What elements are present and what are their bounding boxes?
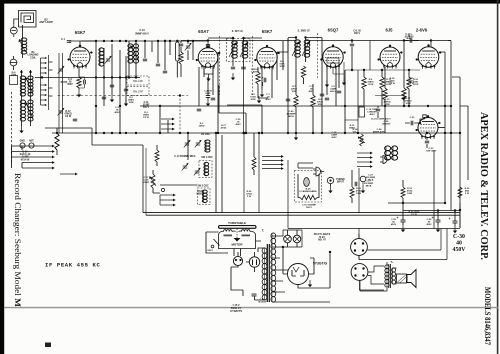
rf stage vertical wires xyxy=(96,41,126,133)
extra tick caps xyxy=(286,94,324,101)
label SW.1 RF lower xyxy=(133,91,143,94)
label C-5 C-6 xyxy=(251,69,255,74)
right page edge line xyxy=(497,0,499,354)
antenna jack circle xyxy=(10,24,17,37)
electrolytic C-27 xyxy=(360,175,376,194)
svg-text:6SK7: 6SK7 xyxy=(262,29,273,34)
label 1st IF xyxy=(232,29,244,33)
frame right step xyxy=(459,203,461,228)
mid hline y70 xyxy=(345,69,420,71)
svg-text:.05 400V: .05 400V xyxy=(258,301,267,304)
osc coil in box 2 xyxy=(202,190,207,203)
label C-25 xyxy=(410,117,416,119)
x358 vertical xyxy=(358,70,364,133)
record changer wire left xyxy=(12,146,23,169)
small jack circles lower xyxy=(161,188,164,191)
label C-17 C-18 xyxy=(143,177,150,184)
svg-text:+: + xyxy=(449,217,451,221)
left margin text Record Changer xyxy=(13,173,23,307)
rect ground xyxy=(308,280,312,287)
svg-text:MODELS 8146,8347: MODELS 8146,8347 xyxy=(483,287,492,345)
pilot wires top xyxy=(283,230,302,247)
speaker socket upper xyxy=(351,234,368,259)
label B-28 candelabra xyxy=(299,189,317,194)
svg-text:SW.1 RF: SW.1 RF xyxy=(133,80,143,83)
tube V7 6V6 lower xyxy=(416,115,441,139)
wires into motor plug xyxy=(298,163,313,168)
resistor below frame xyxy=(55,133,59,150)
svg-text:1/2 W: 1/2 W xyxy=(368,84,375,86)
band switch stems xyxy=(41,55,49,110)
svg-text:MICA: MICA xyxy=(288,115,294,118)
hanging resistor right xyxy=(155,145,159,166)
left mid resistor xyxy=(55,128,59,155)
label T transformer xyxy=(262,229,264,233)
hanging resistor x254 xyxy=(252,133,256,175)
V1 grid cap C-1 xyxy=(61,39,71,42)
svg-text:SW 2 OSC: SW 2 OSC xyxy=(197,186,209,188)
power transformer core xyxy=(267,244,269,302)
V3 cathode resistor xyxy=(256,67,260,90)
1st IF box xyxy=(227,39,251,62)
speaker socket wires xyxy=(359,229,447,260)
1st IF trimmer arrows xyxy=(229,42,248,57)
resistor R-23 xyxy=(350,170,362,203)
junction dots assorted xyxy=(41,36,428,253)
v2 column caps xyxy=(197,98,215,111)
svg-text:1/2 W: 1/2 W xyxy=(408,83,415,85)
label C-16 100MMF xyxy=(302,205,317,210)
label R-20 values xyxy=(20,152,31,162)
loading coil arrow xyxy=(19,39,26,52)
ant coil B3 secondary xyxy=(28,76,33,96)
speaker cone xyxy=(407,270,416,288)
v4 col caps xyxy=(325,91,341,100)
motor plug circle xyxy=(233,256,242,265)
B+ right segment xyxy=(306,40,404,42)
mid area wires xyxy=(160,90,268,133)
ant coil B4 secondary xyxy=(28,100,33,121)
V1 grid cap wire xyxy=(69,41,110,47)
x322 long vertical xyxy=(321,38,323,134)
SW-1 RF dashed box upper xyxy=(127,76,149,85)
svg-text:COIL: COIL xyxy=(30,56,36,59)
tube V5 6J5 xyxy=(378,45,403,69)
ant coil B4 primary xyxy=(20,100,25,121)
rail x451 xyxy=(450,41,452,211)
label SW.1 RF upper xyxy=(133,80,143,83)
label 2-6V6 xyxy=(416,28,428,33)
svg-text:NO. 47: NO. 47 xyxy=(318,239,326,242)
line plug circle xyxy=(249,257,259,267)
V3 plate wire xyxy=(277,38,288,52)
svg-text:470KΩ: 470KΩ xyxy=(64,113,71,116)
motor plug half xyxy=(313,167,324,176)
label C-26 xyxy=(376,106,391,126)
phono arrows mid xyxy=(357,152,373,168)
trimmer near padder xyxy=(185,41,192,60)
tone condenser box xyxy=(359,107,365,117)
svg-text:2. IST I.F.: 2. IST I.F. xyxy=(232,29,244,33)
svg-text:1/2 W: 1/2 W xyxy=(389,83,396,85)
svg-text:C-25: C-25 xyxy=(410,117,416,119)
wires around ant coils xyxy=(22,70,31,126)
label C-10 xyxy=(371,118,391,121)
ant jack 2 circle xyxy=(10,56,17,70)
osc trimmer 3 xyxy=(182,163,189,171)
phono input circle xyxy=(327,177,333,183)
V1 ground xyxy=(77,90,81,97)
x370 vertical xyxy=(369,41,371,71)
horizontal separator line xyxy=(4,307,498,309)
osc trimmer 2 xyxy=(195,140,202,148)
V2 top cap junction xyxy=(207,39,209,41)
B+ top segments xyxy=(110,40,208,42)
V7 grid cap xyxy=(405,115,426,125)
svg-text:MOTOR: MOTOR xyxy=(231,243,243,247)
svg-text:5Y3GT/G: 5Y3GT/G xyxy=(313,262,328,266)
V2 top cap wire xyxy=(181,41,228,48)
changer trailing arrows xyxy=(60,173,78,176)
resistor R-11 2MEG xyxy=(380,70,392,95)
V1 cathode resistor R-1 xyxy=(77,67,81,90)
svg-text:T,: T, xyxy=(262,229,264,233)
resistor R-9 1MEG xyxy=(362,70,374,95)
svg-text:C-8 .05: C-8 .05 xyxy=(353,31,361,33)
1st IF grounds xyxy=(231,73,235,80)
if shield dashes xyxy=(220,36,253,95)
svg-text:450V: 450V xyxy=(391,223,397,226)
left black border bar xyxy=(0,0,4,354)
record changer dashed line xyxy=(11,92,13,163)
svg-text:400V: 400V xyxy=(235,123,241,126)
power switch xyxy=(207,239,219,252)
cap C-29 xyxy=(391,203,406,232)
wires to lower-left arrows xyxy=(153,193,160,205)
motor dashed shaft xyxy=(236,229,238,239)
rf interstage wires xyxy=(129,41,136,78)
svg-text:C-14 500MMF MICA: C-14 500MMF MICA xyxy=(174,155,196,158)
osc trimmer 4 xyxy=(194,168,201,176)
osc coil xyxy=(205,140,210,152)
labels under V4 xyxy=(330,86,337,93)
label 115V xyxy=(230,304,242,313)
svg-text:400 V: 400 V xyxy=(143,106,149,109)
hline y203 right xyxy=(388,202,445,204)
motor leads xyxy=(234,241,261,256)
svg-text:6SQ7: 6SQ7 xyxy=(328,28,339,33)
svg-text:SW-3: SW-3 xyxy=(207,250,213,252)
svg-text:450V: 450V xyxy=(426,223,432,226)
junction dots rails xyxy=(403,105,461,211)
tile3 resistor xyxy=(294,66,298,133)
page mark bottom left xyxy=(45,343,51,348)
af choke coils xyxy=(385,146,398,160)
candelabra wires xyxy=(298,174,319,198)
label SW 2 OSC xyxy=(197,186,209,188)
osc coil in box xyxy=(204,162,209,175)
filler verticals tile2 xyxy=(145,41,193,70)
svg-text:B2 OSC.: B2 OSC. xyxy=(201,133,211,136)
osc trimmer 1 xyxy=(184,140,191,148)
label 5Y3GT/G xyxy=(313,262,328,266)
rf interstage coil pair xyxy=(128,44,139,63)
filler caps tile2 xyxy=(143,59,167,73)
label B1 LOADING COIL xyxy=(27,51,38,59)
2nd IF bottom resistor xyxy=(301,66,305,84)
label C-2 R-1 xyxy=(67,79,73,86)
svg-text:Record Changer: Seeburg Model: Record Changer: Seeburg Model M xyxy=(13,173,23,307)
svg-text:SW 1 OSC: SW 1 OSC xyxy=(201,157,213,159)
label R-14 VOL xyxy=(352,128,358,134)
rf interstage core arrow xyxy=(130,45,139,61)
label tone condsr xyxy=(366,109,378,116)
2nd IF trimmer arrows xyxy=(292,41,310,56)
tube V2 6SA7 xyxy=(196,45,221,69)
V4 ground xyxy=(342,78,346,85)
label 6SK7 V1 xyxy=(75,30,86,35)
V1 cathode bypass C-2 xyxy=(79,77,85,88)
V6 plate wire xyxy=(404,39,451,47)
plug leads xyxy=(238,252,255,262)
v3 column drops xyxy=(262,41,283,98)
extra grounds mid xyxy=(257,96,298,140)
v2 column drops xyxy=(199,52,218,133)
osc dashed box 2 xyxy=(198,188,211,205)
label C-24 xyxy=(373,128,386,134)
1st IF secondary coil xyxy=(242,41,248,58)
svg-text:1/2 W: 1/2 W xyxy=(411,214,418,216)
changer arrows lower left xyxy=(160,194,176,207)
svg-text:C-30: C-30 xyxy=(453,234,465,240)
V2 cathode parts xyxy=(204,67,213,81)
cap C-28 xyxy=(426,211,440,233)
label B5 OSC xyxy=(201,133,211,136)
label 6SQ7 V4 xyxy=(328,28,339,33)
svg-text:220Ω: 220Ω xyxy=(253,72,259,74)
svg-text:.05 400V: .05 400V xyxy=(382,123,391,126)
hline y95 right xyxy=(375,95,404,97)
osc section verticals xyxy=(244,133,259,213)
switch wires xyxy=(206,232,228,253)
ant coil B3 core arrow xyxy=(25,77,33,94)
band switch ticks right xyxy=(49,62,53,96)
label C-4 under V2 xyxy=(204,90,213,96)
gang trimmer top xyxy=(58,66,65,74)
hline y210 right xyxy=(403,210,460,212)
SW-1 RF dashed box lower xyxy=(127,87,149,96)
osc dashed box 1 xyxy=(199,161,212,178)
label C-18 xyxy=(331,132,338,139)
svg-text:400 V: 400 V xyxy=(354,32,360,35)
labels R-18 R-19 xyxy=(389,78,415,85)
plug to output tr wires xyxy=(360,266,385,290)
V4 wires xyxy=(333,62,344,78)
sidebar subtitle MODELS 8146,8347 xyxy=(483,287,492,345)
sidebar divider line xyxy=(0,0,1,1)
label OSC 580KC xyxy=(196,191,203,196)
gang trimmer lower xyxy=(58,108,65,116)
label PILOT LIGHTS xyxy=(314,233,331,242)
label C-? 05 400V xyxy=(404,34,414,39)
svg-text:47 WATTS: 47 WATTS xyxy=(230,310,242,313)
svg-text:400V: 400V xyxy=(265,98,271,101)
label R-6 xyxy=(253,69,259,74)
left mid cap xyxy=(73,119,77,121)
AVC dashed line xyxy=(58,95,189,97)
rect wires xyxy=(283,247,314,274)
junction dots rf xyxy=(95,40,121,79)
volume control R-14 xyxy=(358,134,365,146)
long rail y133 xyxy=(52,132,460,134)
label 6SK7 V3 xyxy=(262,29,273,34)
svg-text:6SA7: 6SA7 xyxy=(198,29,209,34)
electrolytic plus signs xyxy=(397,216,451,221)
motor coil right xyxy=(242,230,251,237)
output transformer T2 xyxy=(385,264,396,288)
rail x445 xyxy=(444,52,446,203)
label B6 ANT xyxy=(11,72,16,78)
2nd IF secondary coil xyxy=(304,40,310,57)
1st IF primary coil xyxy=(232,41,238,58)
label B2 ANT LOOP xyxy=(39,18,53,25)
v4 column drops xyxy=(327,52,352,95)
rail x468 xyxy=(467,106,469,180)
line cord wires xyxy=(231,266,255,296)
svg-text:GND.: GND. xyxy=(20,141,26,143)
label 6J5 V5 xyxy=(386,28,394,33)
svg-text:MICA: MICA xyxy=(366,185,372,188)
svg-text:600V: 600V xyxy=(67,84,73,86)
2nd IF wires xyxy=(288,38,322,67)
svg-text:.01MF: .01MF xyxy=(143,182,150,184)
ant coil B4 core arrow xyxy=(25,102,33,119)
speaker wires xyxy=(360,262,397,291)
svg-text:1/2 W: 1/2 W xyxy=(143,117,150,119)
svg-text:1/2 W: 1/2 W xyxy=(65,116,72,118)
labels GND ANT xyxy=(20,140,35,143)
power transformer secondary xyxy=(271,233,276,302)
top black border bar xyxy=(0,0,500,4)
tube V3 6SK7 xyxy=(254,45,279,69)
label TURNTABLE xyxy=(228,221,246,225)
2nd IF shield dashed xyxy=(317,33,319,78)
svg-text:470Ω: 470Ω xyxy=(221,127,227,130)
cap C-30 symbol xyxy=(453,210,458,233)
rf trimmer mid xyxy=(105,56,112,64)
label SW 1 OSC xyxy=(201,157,213,159)
svg-text:400V: 400V xyxy=(406,37,412,40)
rf stage labels xyxy=(114,97,134,114)
svg-text:40: 40 xyxy=(456,240,462,246)
hline y120 right xyxy=(345,119,358,121)
turntable platter xyxy=(219,226,257,229)
label C-32 xyxy=(252,294,267,303)
tuning vlines xyxy=(180,95,222,213)
V6 V7 right wires xyxy=(438,127,445,129)
speaker field box xyxy=(397,274,407,283)
power section top border xyxy=(288,228,460,230)
svg-text:IF PEAK 455 KC: IF PEAK 455 KC xyxy=(45,262,100,269)
label T2 xyxy=(391,260,395,264)
antenna loop B2 box xyxy=(19,11,37,28)
padder capacitor bar xyxy=(176,41,180,78)
x288 long vertical xyxy=(287,38,289,133)
transformer sec taps xyxy=(272,236,330,302)
phono ground xyxy=(328,184,332,194)
resistor R-16 500K xyxy=(407,70,419,95)
tube V1 6SK7 xyxy=(68,45,93,69)
small terminal box xyxy=(10,76,18,85)
svg-text:2-6V6: 2-6V6 xyxy=(416,28,428,33)
svg-text:6J5: 6J5 xyxy=(386,28,394,33)
tile3 resistor2 xyxy=(311,84,315,133)
svg-text:MICA: MICA xyxy=(368,179,374,182)
svg-text:20KΩ: 20KΩ xyxy=(199,126,205,128)
junction dots ant area xyxy=(20,71,31,73)
tube V4 6SQ7 xyxy=(320,44,345,68)
svg-text:500 V: 500 V xyxy=(306,207,312,209)
1st IF secondary drop xyxy=(243,66,245,133)
frame bottom-left inner xyxy=(145,148,147,215)
label PHONO INPUT xyxy=(336,179,345,184)
resistor R-25 xyxy=(401,180,413,203)
2nd IF bottom texts xyxy=(291,86,314,93)
staircase wires under V2 xyxy=(219,85,262,133)
phono area vertical xyxy=(358,168,360,213)
wire jack to loop xyxy=(14,19,19,24)
frame bottom-left step xyxy=(45,128,143,213)
pilot light 2 xyxy=(293,230,301,247)
gang shield partition xyxy=(59,53,63,133)
rf stage hline y77 xyxy=(35,77,140,79)
motor housing xyxy=(219,231,256,249)
label R-17 arrow xyxy=(402,93,412,105)
motor coil left xyxy=(224,230,233,237)
svg-text:400V: 400V xyxy=(369,113,375,116)
rf coil between stages xyxy=(99,48,104,66)
frame bottom border xyxy=(143,213,460,216)
rail x460 xyxy=(459,77,461,228)
svg-text:M 1/4 W: M 1/4 W xyxy=(21,158,30,161)
rf stage hline y41 xyxy=(81,40,96,42)
label R-15 xyxy=(349,125,355,130)
svg-text:400 V: 400 V xyxy=(330,90,336,93)
osc hline y185 xyxy=(160,184,197,186)
V5 plate cap xyxy=(404,38,419,43)
speaker plug lower xyxy=(351,264,368,281)
rf ground arrows xyxy=(110,95,128,106)
long rail y106 xyxy=(140,105,451,107)
B+ mid segment xyxy=(228,40,296,42)
candelabra resistor xyxy=(300,195,317,199)
2nd IF primary coil xyxy=(295,40,301,57)
svg-text:.1MF 400V: .1MF 400V xyxy=(426,150,437,153)
tube V6 6V6 upper xyxy=(416,44,442,69)
record changer arrows xyxy=(12,145,55,170)
changer arrows right xyxy=(262,155,284,170)
label C-14 mica xyxy=(174,155,196,158)
IF peak annotation xyxy=(45,262,100,269)
svg-text:INPUT: INPUT xyxy=(337,182,344,184)
candelabra dashed box xyxy=(295,171,322,203)
label C-8 xyxy=(350,31,362,53)
antenna loop spiral xyxy=(21,13,34,23)
label R-13 xyxy=(384,99,391,106)
svg-text:ANT.: ANT. xyxy=(29,140,34,143)
ground below ant coil xyxy=(19,126,23,133)
ant coil B3 primary xyxy=(20,76,25,96)
